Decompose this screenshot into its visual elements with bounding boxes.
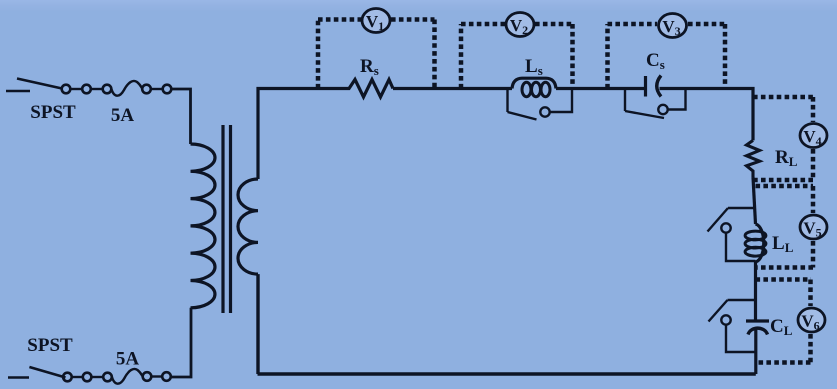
fuse F1 terminal bead 2 [82, 85, 91, 94]
capacitor Cs left plate [644, 76, 647, 97]
voltmeter V2 dotted lead right [570, 24, 575, 89]
fuse F2 element squiggle [112, 369, 143, 384]
voltmeter V4 dotted lead bottom [753, 178, 813, 183]
wire secondary bottom down [256, 274, 259, 374]
label 5A top [111, 105, 135, 126]
capacitor CL bottom curved plate [748, 328, 768, 334]
wire Ls to Cs [556, 87, 646, 90]
voltmeter V2 dotted lead top [461, 22, 573, 27]
wire bead4-bead5 [151, 88, 163, 90]
voltmeter V5 body [800, 215, 827, 240]
voltmeter V6 body [798, 308, 825, 333]
label SPST top [30, 102, 76, 123]
fuse F2 terminal bead 2 [83, 373, 92, 382]
voltmeter V2 body [506, 13, 534, 38]
wire fuse to corner and down to primary [171, 89, 190, 144]
fuse F2 terminal bead 1 [63, 373, 72, 382]
wire secondary top to main top wire [258, 89, 345, 180]
voltmeter V3 dotted lead top [608, 22, 726, 27]
wire F2 bead4-bead5 [151, 375, 162, 377]
voltmeter V1 dotted lead left [316, 20, 321, 89]
switch across LL : blade [708, 208, 729, 232]
inductor Ls ring 1 [522, 82, 531, 96]
transformer T1 secondary winding [238, 179, 258, 274]
voltmeter V6 dotted lead right [808, 280, 813, 363]
wire RL to LL [753, 177, 756, 224]
switch across LL : bottom return [726, 233, 756, 261]
label 5A bottom [116, 349, 140, 370]
wire CL to bottom [754, 328, 757, 375]
switch across Ls : right return [550, 89, 572, 113]
resistor Rs [345, 80, 393, 98]
label SPST bottom [27, 335, 73, 356]
label LL [772, 233, 794, 255]
switch across Cs : right return [668, 89, 686, 110]
voltmeter V1 dotted lead top [318, 17, 435, 22]
fuse F1 terminal bead 1 [62, 85, 71, 94]
fuse F2 terminal bead 4 [143, 372, 152, 381]
svg-text:SPST: SPST [30, 102, 76, 123]
switch S1 blade (SPST open) [17, 79, 62, 89]
wire F2 bead1-bead2 [72, 376, 83, 378]
inductor Ls hump [512, 78, 556, 88]
inductor LL ring 2 [745, 239, 766, 248]
wire LL to CL [754, 262, 757, 321]
transformer T1 core line 2 [229, 125, 232, 313]
svg-text:SPST: SPST [27, 335, 73, 356]
label Cs [646, 50, 665, 72]
wire Rs to Ls [393, 87, 512, 90]
inductor Ls ring 3 [541, 82, 550, 96]
wire F2 bead2-bead3 [92, 376, 104, 378]
switch across LL : top arm [728, 207, 756, 209]
voltmeter V3 dotted lead left [605, 24, 610, 89]
wire primary bottom to source return [171, 308, 191, 377]
voltmeter V3 dotted lead right [723, 24, 728, 89]
switch S2 terminal stub [8, 376, 29, 379]
switch across Ls : left drop [506, 89, 508, 113]
switch across CL : bottom return [726, 325, 756, 352]
switch across Ls : contact circle [540, 107, 549, 116]
switch S1 terminal stub [6, 90, 30, 93]
transformer T1 primary winding [191, 144, 216, 308]
capacitor CL top plate [746, 319, 769, 322]
wire bead2-bead3 [91, 88, 103, 90]
fuse F1 element squiggle [111, 81, 142, 96]
svg-text:5A: 5A [111, 105, 135, 126]
voltmeter V4 body [800, 124, 827, 149]
fuse F1 terminal bead 4 [142, 85, 151, 94]
voltmeter V6 dotted lead bottom [756, 360, 811, 365]
switch across CL : top arm [728, 299, 756, 301]
resistor RL (vertical) [747, 140, 760, 177]
label RL [775, 147, 798, 169]
inductor Ls ring 2 [532, 82, 541, 96]
switch across CL : blade [709, 300, 728, 322]
fuse F2 terminal bead 5 [162, 372, 171, 381]
voltmeter V2 dotted lead left [459, 24, 464, 89]
voltmeter V4 dotted lead right [811, 97, 816, 180]
voltmeter V5 dotted lead right [811, 186, 816, 268]
switch across Cs : contact circle [658, 105, 667, 114]
voltmeter V1 body [362, 9, 390, 34]
voltmeter V5 dotted lead bottom [756, 265, 814, 270]
switch across Ls : blade [508, 112, 537, 120]
switch across LL : contact circle [721, 223, 730, 232]
bottom load wire [258, 372, 756, 375]
inductor LL hump [756, 224, 764, 262]
wire Cs to corner and down [660, 89, 754, 141]
voltmeter V1 dotted lead right [432, 20, 437, 89]
switch across Cs : blade [625, 111, 664, 118]
inductor LL ring 3 [745, 247, 766, 256]
fuse F2 terminal bead 3 [103, 373, 112, 382]
inductor LL ring 1 [745, 231, 766, 240]
fuse F1 terminal bead 5 [163, 85, 172, 94]
voltmeter V4 dotted lead top [753, 95, 813, 100]
label CL [770, 316, 793, 338]
voltmeter V5 dotted lead top [756, 184, 814, 189]
switch across Cs : left drop [624, 89, 626, 112]
label Ls [525, 56, 543, 78]
transformer T1 core line 1 [221, 125, 224, 313]
wire bead1-bead2 [70, 88, 82, 90]
voltmeter V6 dotted lead top [756, 277, 812, 282]
voltmeter V3 body [659, 14, 687, 39]
label Rs [360, 56, 379, 78]
switch S2 blade [29, 367, 65, 378]
fuse F1 terminal bead 3 [103, 85, 112, 94]
switch across CL : contact circle [721, 315, 730, 324]
capacitor Cs right curved plate [657, 76, 661, 97]
svg-text:5A: 5A [116, 349, 140, 370]
